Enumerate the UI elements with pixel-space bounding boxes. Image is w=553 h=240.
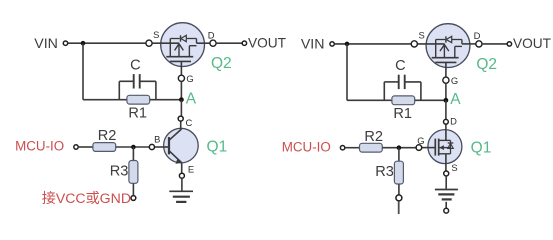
terminal VOUT (left) [242,41,246,45]
svg-text:VOUT: VOUT [513,36,552,51]
svg-text:A: A [450,91,461,108]
wire to R1 left (left) [83,99,127,101]
svg-text:G: G [451,75,458,86]
wire Q2 gate to node A (left) [180,82,182,100]
terminal below ground (right) [444,208,449,213]
wire R2 to Q1 input (right) [383,147,417,149]
terminal MCU-IO (right) [340,146,344,150]
terminal E of Q1 (left) [179,173,184,178]
terminal S of Q1 (right) [444,171,449,176]
junction R3 tap (left) [131,145,136,150]
junction VIN node (left) [81,41,86,46]
svg-text:E: E [188,163,194,174]
resistor R1 (left) [127,95,150,104]
svg-text:VOUT: VOUT [248,36,287,51]
wire tap down to R3 (right) [398,148,400,161]
svg-text:R3: R3 [375,164,394,180]
resistor R2 (left) [93,143,116,152]
wire R1 to node A (left) [150,99,182,101]
wire R3 down (left) [132,184,134,196]
terminal D of Q2 (left) [210,40,216,46]
wire VIN to Q2 source (right) [334,43,411,45]
wire cap branch right (left) [155,81,157,99]
terminal D of Q1 (right) [444,119,449,124]
wire cap branch left (left) [118,81,120,99]
svg-text:MCU-IO: MCU-IO [15,139,64,154]
wire Q1 source to ground (right) [445,176,447,189]
wire node A to Q1 (left) [180,100,182,116]
wire VIN to Q2 source (left) [68,42,146,44]
svg-text:R1: R1 [128,106,147,122]
terminal B of Q1 (left) [149,144,154,149]
wire VIN node down (right) [346,44,348,100]
terminal D of Q2 (right) [476,41,482,47]
svg-text:Q1: Q1 [207,138,228,155]
capacitor C (right) [384,75,421,89]
svg-text:B: B [154,134,160,145]
transistor Q2 PMOS (left) [152,23,210,75]
svg-text:Q2: Q2 [476,56,497,73]
svg-text:S: S [418,30,424,41]
wire MCU-IO to R2 (left) [78,146,92,148]
terminal C of Q1 (left) [178,116,183,121]
junction VIN node (right) [345,42,350,47]
svg-text:G: G [417,135,424,146]
svg-text:C: C [395,58,406,74]
wire Q2 drain to VOUT (left) [216,42,242,44]
terminal G of Q2 (left) [178,75,184,81]
terminal VIN (right) [330,42,334,46]
svg-text:Q1: Q1 [471,140,492,157]
svg-text:MCU-IO: MCU-IO [282,139,331,154]
wire to R1 left (right) [347,99,392,101]
svg-text:D: D [450,116,457,127]
svg-text:R2: R2 [98,128,117,144]
svg-text:G: G [186,73,193,84]
terminal S of Q2 (right) [411,41,417,47]
resistor R3 (right) [394,161,403,184]
terminal MCU-IO (left) [74,145,78,149]
svg-text:Q2: Q2 [211,55,232,72]
svg-text:VIN: VIN [301,37,325,53]
wire R2 to Q1 input (left) [116,146,150,148]
wire MCU-IO to R2 (right) [345,147,359,149]
svg-text:D: D [208,29,215,40]
svg-text:C: C [186,117,193,128]
node A junction (left) [179,97,184,102]
terminal VIN (left) [63,41,67,45]
resistor R3 (left) [129,161,138,184]
ground (right) [435,190,458,200]
svg-text:R1: R1 [393,106,412,122]
terminal VOUT (right) [507,42,511,46]
wire cap branch right (right) [420,82,422,100]
wire node A to Q1 (right) [445,100,447,119]
node A junction (right) [444,98,449,103]
wire Q2 gate to node A (right) [445,83,447,100]
junction R3 tap (right) [397,145,402,150]
svg-text:D: D [474,30,481,41]
wire Q1 emitter to ground (left) [181,178,183,190]
terminal below R3 (right) [396,195,402,201]
resistor R2 (right) [360,143,383,152]
svg-text:R2: R2 [364,129,383,145]
wire cap branch left (right) [383,82,385,100]
transistor Q1 NPN (left) [155,121,199,173]
wire stub below R3 terminal (right) [398,202,400,214]
transistor Q1 NMOS (right) [421,124,462,170]
transistor Q2 PMOS (right) [418,24,476,77]
wire VIN node down (left) [82,43,84,99]
ground (left) [169,191,193,202]
wire Q2 drain to VOUT (right) [482,43,507,45]
wire tap down to R3 (left) [132,147,134,160]
svg-text:C: C [130,57,141,73]
svg-text:R3: R3 [110,164,129,180]
wire ground stub down (right) [445,202,447,208]
svg-text:VIN: VIN [34,36,58,52]
wire R1 to node A (right) [415,99,446,101]
resistor R1 (right) [392,96,415,105]
terminal S of Q2 (left) [146,40,152,46]
svg-text:A: A [186,91,197,108]
terminal below R3 (left) [131,196,136,201]
terminal G of Q1 (right) [416,145,422,151]
svg-text:接VCC或GND: 接VCC或GND [42,190,131,206]
capacitor C (left) [119,74,156,88]
wire R3 down (right) [398,184,400,196]
terminal G of Q2 (right) [443,77,449,83]
svg-text:S: S [153,29,159,40]
svg-text:S: S [451,162,457,173]
